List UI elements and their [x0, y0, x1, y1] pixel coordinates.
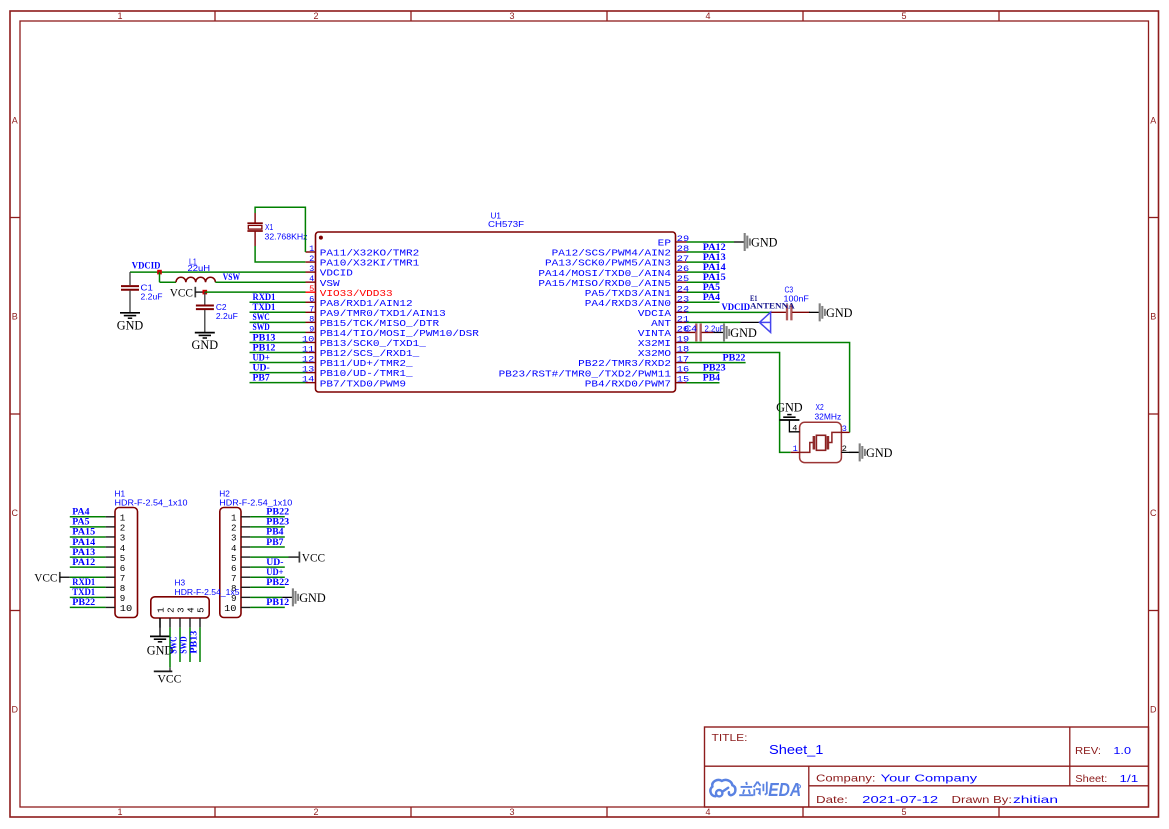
svg-text:PA12: PA12 — [703, 242, 726, 252]
wire net PB12 at H2 pin 10 — [250, 606, 284, 608]
wire H3 pin2 to VCC — [169, 628, 171, 668]
H1 pin 6 — [106, 563, 126, 574]
svg-text:EP: EP — [658, 239, 671, 249]
wire net UD- at H2 pin 6 — [250, 566, 284, 568]
wire net UD- at U1 pin 13 — [250, 372, 306, 374]
wire net RXD1 at U1 pin 6 — [250, 301, 306, 303]
svg-text:1: 1 — [117, 11, 122, 21]
wire VCC to U1 pin5 — [205, 291, 306, 293]
svg-text:Sheet_1: Sheet_1 — [769, 743, 823, 757]
svg-text:Drawn By:: Drawn By: — [952, 794, 1013, 806]
svg-text:PB13/SCK0_/TXD1_: PB13/SCK0_/TXD1_ — [320, 339, 427, 349]
svg-text:PA4: PA4 — [703, 292, 721, 302]
H1 pin 9 — [106, 593, 126, 604]
H1 pin 4 — [106, 543, 126, 554]
svg-text:1: 1 — [117, 807, 122, 817]
svg-text:GND: GND — [826, 306, 853, 320]
wire net PB4 — [687, 382, 720, 384]
svg-text:PB7: PB7 — [253, 372, 271, 382]
svg-text:HDR-F-2.54_1x5: HDR-F-2.54_1x5 — [175, 587, 240, 597]
svg-text:3: 3 — [509, 11, 514, 21]
svg-text:3: 3 — [509, 807, 514, 817]
svg-text:PA13: PA13 — [72, 547, 95, 557]
wire net TXD1 at U1 pin 7 — [250, 311, 306, 313]
ground below C1 — [117, 313, 144, 333]
wire net TXD1 at H1 pin 9 — [70, 596, 106, 598]
svg-text:PB13: PB13 — [253, 332, 276, 342]
wire H2 pin5 to VCC — [250, 556, 288, 558]
svg-text:PA11/X32KO/TMR2: PA11/X32KO/TMR2 — [320, 249, 420, 259]
svg-text:UD-: UD- — [253, 362, 270, 372]
svg-text:PB15/TCK/MISO_/DTR: PB15/TCK/MISO_/DTR — [320, 319, 440, 329]
H2 pin 10 — [224, 603, 250, 614]
svg-text:PA5: PA5 — [703, 282, 721, 292]
svg-text:7: 7 — [309, 304, 314, 314]
connector H3 body — [151, 597, 209, 618]
svg-text:PB7/TXD0/PWM9: PB7/TXD0/PWM9 — [320, 379, 406, 389]
wire net PB7 at U1 pin 14 — [250, 382, 306, 384]
wire net PB22 at H2 pin 8 — [250, 586, 284, 588]
svg-text:PA15/MISO/RXD0_/AIN5: PA15/MISO/RXD0_/AIN5 — [538, 279, 671, 289]
H3 pin 2 — [166, 607, 177, 627]
power flag VCC (left) — [170, 285, 196, 299]
svg-text:VINTA: VINTA — [638, 329, 672, 339]
svg-text:VCC: VCC — [34, 570, 57, 584]
svg-text:SWC: SWC — [169, 636, 179, 653]
U1 pin 14 (PB7/TXD0/PWM9) — [302, 375, 406, 390]
svg-text:2: 2 — [842, 444, 847, 454]
wire net PA5 at H1 pin 2 — [70, 526, 106, 528]
U1 pin 9 (PB14/TIO/MOSI_/PWM10/DSR) — [306, 324, 480, 339]
ground above X2 pin4 — [776, 401, 803, 420]
svg-text:SWC: SWC — [253, 312, 270, 322]
U1 pin 4 (VSW) — [306, 274, 341, 289]
H1 pin 10 — [106, 603, 133, 614]
X2 pin 2 lead — [841, 451, 859, 453]
H3 pin 5 — [196, 607, 207, 627]
H1 pin 8 — [106, 583, 126, 594]
wire net PA15 at H1 pin 3 — [70, 536, 106, 538]
connector H2 body — [220, 508, 241, 618]
svg-text:X1: X1 — [265, 222, 273, 232]
svg-text:VSW: VSW — [320, 279, 341, 289]
wire net PB23 — [687, 372, 720, 374]
svg-text:10: 10 — [120, 603, 132, 614]
H2 pin 3 — [231, 533, 250, 544]
svg-text:1: 1 — [793, 444, 798, 454]
wire ANT to antenna — [687, 321, 741, 323]
svg-text:9: 9 — [309, 324, 314, 334]
capacitor C2 2.2uF — [196, 292, 214, 332]
svg-text:A: A — [1150, 116, 1156, 126]
svg-text:VDCID: VDCID — [320, 269, 353, 279]
H1 pin 7 — [106, 573, 126, 584]
ground below C2 — [192, 333, 219, 353]
svg-text:32MHz: 32MHz — [815, 412, 842, 422]
svg-text:C4: C4 — [684, 324, 697, 334]
H1 pin 3 — [106, 533, 126, 544]
H1 pin 1 — [106, 513, 126, 524]
capacitor C1 2.2uF — [121, 272, 139, 313]
wire VDCID down to L1 — [159, 272, 161, 282]
svg-text:3: 3 — [309, 264, 314, 274]
wire X32MI to X2 pin3 — [687, 343, 850, 433]
ground flag at X2 pin2 — [849, 443, 893, 461]
svg-text:PA14: PA14 — [72, 537, 95, 547]
wire net PA14 — [687, 271, 720, 273]
svg-text:B: B — [1150, 312, 1156, 322]
svg-text:PA5/TXD3/AIN1: PA5/TXD3/AIN1 — [585, 289, 671, 299]
svg-text:5: 5 — [309, 284, 314, 294]
svg-text:PB14/TIO/MOSI_/PWM10/DSR: PB14/TIO/MOSI_/PWM10/DSR — [320, 329, 480, 339]
ground flag after C4 — [713, 323, 757, 341]
svg-text:PA4: PA4 — [72, 507, 90, 517]
wire net PB12 at U1 pin 11 — [250, 352, 306, 354]
wire net PA14 at H1 pin 4 — [70, 546, 106, 548]
ground below H3 pin1 — [147, 636, 174, 657]
wire net SWD at H3 pin 4 — [189, 628, 191, 662]
svg-text:PB22: PB22 — [266, 577, 289, 587]
antenna E1 — [741, 312, 771, 332]
svg-text:PB12: PB12 — [266, 597, 289, 607]
svg-text:PB12/SCS_/RXD1_: PB12/SCS_/RXD1_ — [320, 349, 420, 359]
U1 pin 17 (PB22/TMR3/RXD2) — [578, 355, 689, 370]
wire net PB22 — [687, 362, 746, 364]
power flag VCC at H1 pin7 — [34, 570, 60, 584]
inductor L1 22uH — [176, 277, 215, 282]
svg-text:SWD: SWD — [253, 322, 270, 332]
svg-text:PA9/TMR0/TXD1/AIN13: PA9/TMR0/TXD1/AIN13 — [320, 309, 446, 319]
IC U1 CH573F body — [316, 232, 676, 392]
svg-text:PB10/UD-/TMR1_: PB10/UD-/TMR1_ — [320, 369, 414, 379]
svg-text:UD+: UD+ — [266, 567, 283, 577]
svg-text:TXD1: TXD1 — [253, 302, 276, 312]
svg-text:PA15: PA15 — [703, 272, 726, 282]
svg-text:5: 5 — [901, 11, 906, 21]
capacitor C4 2.2uF — [687, 323, 714, 341]
wire net UD+ at U1 pin 12 — [250, 362, 306, 364]
svg-text:4: 4 — [309, 274, 314, 284]
wire net PA12 at H1 pin 6 — [70, 566, 106, 568]
svg-text:GND: GND — [730, 326, 757, 340]
U1 pin 2 (PA10/X32KI/TMR1) — [306, 254, 420, 269]
U1 pin 5 (VIO33/VDD33) — [306, 284, 393, 299]
H2 pin 5 — [231, 553, 250, 564]
svg-text:PA4/RXD3/AIN0: PA4/RXD3/AIN0 — [585, 299, 671, 309]
svg-text:VSW: VSW — [223, 272, 241, 282]
wire VDCID to U1 pin3 — [130, 271, 306, 273]
svg-text:A: A — [12, 116, 18, 126]
svg-text:Sheet:: Sheet: — [1075, 773, 1107, 785]
VCC lead — [195, 291, 202, 293]
svg-text:1/1: 1/1 — [1120, 773, 1139, 785]
wire net PA4 — [687, 301, 720, 303]
U1 pin 24 (PA5/TXD3/AIN1) — [585, 284, 689, 299]
svg-text:2.2uF: 2.2uF — [141, 292, 163, 302]
svg-text:SWD: SWD — [179, 636, 189, 653]
wire net PB22 at H1 pin 10 — [70, 606, 106, 608]
svg-text:PB23: PB23 — [703, 362, 726, 372]
svg-text:TITLE:: TITLE: — [712, 733, 748, 744]
svg-text:GND: GND — [299, 591, 326, 605]
H2 pin 7 — [231, 573, 250, 584]
svg-text:EDA: EDA — [768, 780, 801, 800]
svg-text:VDCID: VDCID — [132, 261, 161, 271]
svg-text:PA12: PA12 — [72, 557, 95, 567]
U1 pin 29 (EP) — [658, 234, 690, 249]
svg-text:PB4/RXD0/PWM7: PB4/RXD0/PWM7 — [585, 379, 671, 389]
wire H2 pin9 to ground — [250, 596, 282, 598]
svg-text:B: B — [12, 312, 18, 322]
X2 pin 1 lead — [791, 451, 800, 453]
H3 pin 4 — [186, 607, 197, 628]
svg-text:2021-07-12: 2021-07-12 — [862, 794, 938, 806]
svg-text:PB23: PB23 — [266, 517, 289, 527]
svg-text:GND: GND — [117, 318, 144, 332]
H2 pin 6 — [231, 563, 250, 574]
svg-text:VCC: VCC — [158, 672, 182, 686]
U1 pin 25 (PA15/MISO/RXD0_/AIN5) — [538, 274, 689, 289]
svg-text:PB22/TMR3/RXD2: PB22/TMR3/RXD2 — [578, 359, 671, 369]
power flag VCC below H3 pin2 — [154, 667, 182, 685]
svg-text:PA10/X32KI/TMR1: PA10/X32KI/TMR1 — [320, 259, 420, 269]
H2 pin 9 — [231, 593, 250, 604]
svg-text:8: 8 — [309, 314, 314, 324]
svg-text:X32MI: X32MI — [638, 339, 671, 349]
svg-text:PA14/MOSI/TXD0_/AIN4: PA14/MOSI/TXD0_/AIN4 — [538, 269, 671, 279]
U1 pin 10 (PB13/SCK0_/TXD1_) — [302, 334, 427, 349]
svg-text:4: 4 — [705, 807, 710, 817]
svg-text:D: D — [1150, 705, 1157, 715]
svg-text:22uH: 22uH — [188, 263, 211, 273]
H2 pin 4 — [231, 543, 250, 554]
U1 pin 21 (ANT) — [651, 314, 689, 329]
svg-text:CH573F: CH573F — [488, 219, 524, 229]
svg-text:REV:: REV: — [1075, 745, 1101, 757]
svg-text:PB12: PB12 — [253, 342, 276, 352]
U1 pin 15 (PB4/RXD0/PWM7) — [585, 375, 689, 390]
svg-text:PA15: PA15 — [72, 527, 95, 537]
U1 pin 28 (PA12/SCS/PWM4/AIN2) — [552, 244, 690, 259]
svg-text:2: 2 — [309, 254, 314, 264]
junction VCC / C2 — [203, 290, 208, 295]
crystal X1 32.768KHz — [247, 213, 262, 246]
H3 pin 1 — [156, 607, 167, 628]
svg-text:zhitian: zhitian — [1013, 794, 1058, 806]
wire X32MO to X2 pin1 — [687, 353, 791, 453]
ground flag after C3 — [809, 303, 853, 321]
U1 pin 12 (PB11/UD+/TMR2_) — [302, 355, 414, 370]
svg-text:PB22: PB22 — [266, 507, 289, 517]
svg-text:4: 4 — [705, 11, 710, 21]
wire net SWC at U1 pin 8 — [250, 321, 306, 323]
svg-text:VCC: VCC — [170, 285, 193, 299]
wire net UD+ at H2 pin 7 — [250, 576, 284, 578]
wire VDCID at U1 pin22 — [687, 311, 771, 313]
wire net PB7 at H2 pin 4 — [250, 546, 284, 548]
svg-text:VIO33/VDD33: VIO33/VDD33 — [320, 289, 393, 299]
wire VCC to H1 pin7 — [70, 576, 106, 578]
U1 pin 8 (PB15/TCK/MISO_/DTR) — [306, 314, 440, 329]
svg-text:Date:: Date: — [816, 794, 848, 806]
svg-text:PB23/RST#/TMR0_/TXD2/PWM11: PB23/RST#/TMR0_/TXD2/PWM11 — [499, 369, 671, 379]
U1 pin 3 (VDCID) — [306, 264, 353, 279]
svg-text:PA8/RXD1/AIN12: PA8/RXD1/AIN12 — [320, 299, 413, 309]
wire net PB22 at H2 pin 1 — [250, 516, 284, 518]
H3 pin 3 — [176, 607, 187, 627]
svg-text:Your Company: Your Company — [881, 773, 978, 785]
svg-text:2: 2 — [313, 807, 318, 817]
wire to L1 left terminal — [160, 281, 177, 283]
wire net PA12 — [687, 251, 720, 253]
wire VSW: L1 to U1 pin4 — [215, 281, 305, 283]
svg-text:GND: GND — [776, 401, 803, 415]
H2 pin 8 — [231, 583, 250, 594]
H2 pin 2 — [231, 523, 250, 534]
wire net PB23 at H2 pin 2 — [250, 526, 284, 528]
svg-text:PB4: PB4 — [266, 527, 284, 537]
U1 pin 7 (PA9/TMR0/TXD1/AIN13) — [306, 304, 446, 319]
U1 pin 26 (PA14/MOSI/TXD0_/AIN4) — [538, 264, 689, 279]
svg-text:1.0: 1.0 — [1113, 745, 1131, 757]
U1 pin 6 (PA8/RXD1/AIN12) — [306, 294, 413, 309]
svg-text:C: C — [11, 508, 18, 518]
U1 pin 19 (X32MI) — [638, 335, 689, 350]
wire net PA4 at H1 pin 1 — [70, 516, 106, 518]
wire net PA13 — [687, 261, 720, 263]
svg-text:PA5: PA5 — [72, 517, 90, 527]
U1 pin 22 (VDCIA) — [638, 304, 689, 319]
H1 pin 2 — [106, 523, 126, 534]
svg-text:TXD1: TXD1 — [72, 587, 95, 597]
svg-text:PB7: PB7 — [266, 537, 284, 547]
wire H3 pin1 to ground — [159, 618, 161, 636]
svg-text:GND: GND — [192, 338, 219, 352]
X2 pin 3 lead — [841, 431, 849, 433]
svg-text:VCC: VCC — [302, 550, 325, 564]
svg-text:PA13: PA13 — [703, 252, 726, 262]
wire net RXD1 at H1 pin 8 — [70, 586, 106, 588]
svg-text:32.768KHz: 32.768KHz — [265, 232, 308, 242]
svg-text:VDCIA: VDCIA — [638, 309, 672, 319]
svg-text:PA14: PA14 — [703, 262, 726, 272]
svg-text:GND: GND — [751, 236, 778, 250]
svg-text:PB22: PB22 — [72, 597, 95, 607]
wire net SWC at H3 pin 3 — [179, 628, 181, 662]
EasyEDA logo — [710, 780, 801, 800]
svg-text:PB22: PB22 — [723, 352, 746, 362]
svg-text:1: 1 — [309, 244, 314, 254]
svg-text:H3: H3 — [175, 577, 186, 587]
U1 pin 23 (PA4/RXD3/AIN0) — [585, 294, 689, 309]
svg-text:RXD1: RXD1 — [72, 577, 95, 587]
svg-text:3: 3 — [842, 424, 847, 434]
svg-text:Company:: Company: — [816, 773, 876, 785]
wire net PB13 at U1 pin 10 — [250, 341, 306, 343]
wire EP to ground — [687, 241, 735, 243]
H2 pin 1 — [231, 513, 250, 524]
wire net SWD at U1 pin 9 — [250, 331, 306, 333]
wire net PA13 at H1 pin 5 — [70, 556, 106, 558]
U1 pin 11 (PB12/SCS_/RXD1_) — [302, 345, 420, 360]
svg-text:PA12/SCS/PWM4/AIN2: PA12/SCS/PWM4/AIN2 — [552, 249, 671, 259]
U1 pin 1 (PA11/X32KO/TMR2) — [306, 244, 420, 259]
U1 pin 13 (PB10/UD-/TMR1_) — [302, 365, 414, 380]
svg-text:PB11/UD+/TMR2_: PB11/UD+/TMR2_ — [320, 359, 414, 369]
svg-text:ANTENNA: ANTENNA — [750, 301, 796, 311]
wire net PB4 at H2 pin 3 — [250, 536, 284, 538]
title block frame — [705, 727, 1149, 807]
svg-text:GND: GND — [866, 446, 893, 460]
svg-text:UD+: UD+ — [253, 352, 270, 362]
junction VDCID node — [157, 270, 162, 275]
U1 pin 27 (PA13/SCK0/PWM5/AIN3) — [545, 254, 689, 269]
svg-text:RXD1: RXD1 — [253, 292, 276, 302]
svg-text:2: 2 — [313, 11, 318, 21]
svg-text:D: D — [11, 705, 18, 715]
svg-text:5: 5 — [196, 607, 207, 613]
svg-text:PB13: PB13 — [189, 630, 199, 653]
svg-text:HDR-F-2.54_1x10: HDR-F-2.54_1x10 — [115, 497, 188, 507]
ground flag at EP — [734, 233, 778, 251]
crystal X2 32MHz body — [800, 422, 842, 462]
VCC lead H2 — [289, 556, 300, 558]
wire X1 bottom to U1 pin2 — [255, 246, 305, 262]
svg-text:PB4: PB4 — [703, 373, 721, 383]
svg-text:ANT: ANT — [651, 319, 671, 329]
svg-text:5: 5 — [901, 807, 906, 817]
H1 pin 5 — [106, 553, 126, 564]
wire net PA15 — [687, 281, 720, 283]
capacitor C3 100nF — [770, 304, 810, 320]
svg-text:X2: X2 — [816, 402, 824, 412]
connector H1 body — [115, 508, 138, 618]
svg-text:6: 6 — [309, 294, 314, 304]
U1 pin 18 (X32MO) — [638, 345, 689, 360]
wire net PB13 at H3 pin 5 — [199, 628, 201, 662]
wire net PA5 — [687, 291, 720, 293]
power flag VCC at H2 pin5 — [299, 550, 325, 564]
ground flag at H2 pin9 — [282, 588, 326, 606]
svg-text:10: 10 — [224, 603, 236, 614]
svg-text:2.2uF: 2.2uF — [216, 311, 238, 321]
svg-text:VDCID: VDCID — [722, 302, 751, 312]
VCC lead H1 — [60, 576, 70, 578]
X2 pin 4 lead to ground — [789, 420, 799, 432]
svg-text:X32MO: X32MO — [638, 349, 671, 359]
svg-text:PA13/SCK0/PWM5/AIN3: PA13/SCK0/PWM5/AIN3 — [545, 259, 671, 269]
svg-text:4: 4 — [792, 424, 797, 434]
U1 pin 16 (PB23/RST#/TMR0_/TXD2/PWM11) — [499, 365, 690, 380]
svg-text:UD-: UD- — [266, 557, 283, 567]
wire X1 top to U1 pin1 — [255, 207, 305, 252]
U1 pin 20 (VINTA) — [638, 324, 689, 339]
svg-text:C: C — [1150, 508, 1157, 518]
